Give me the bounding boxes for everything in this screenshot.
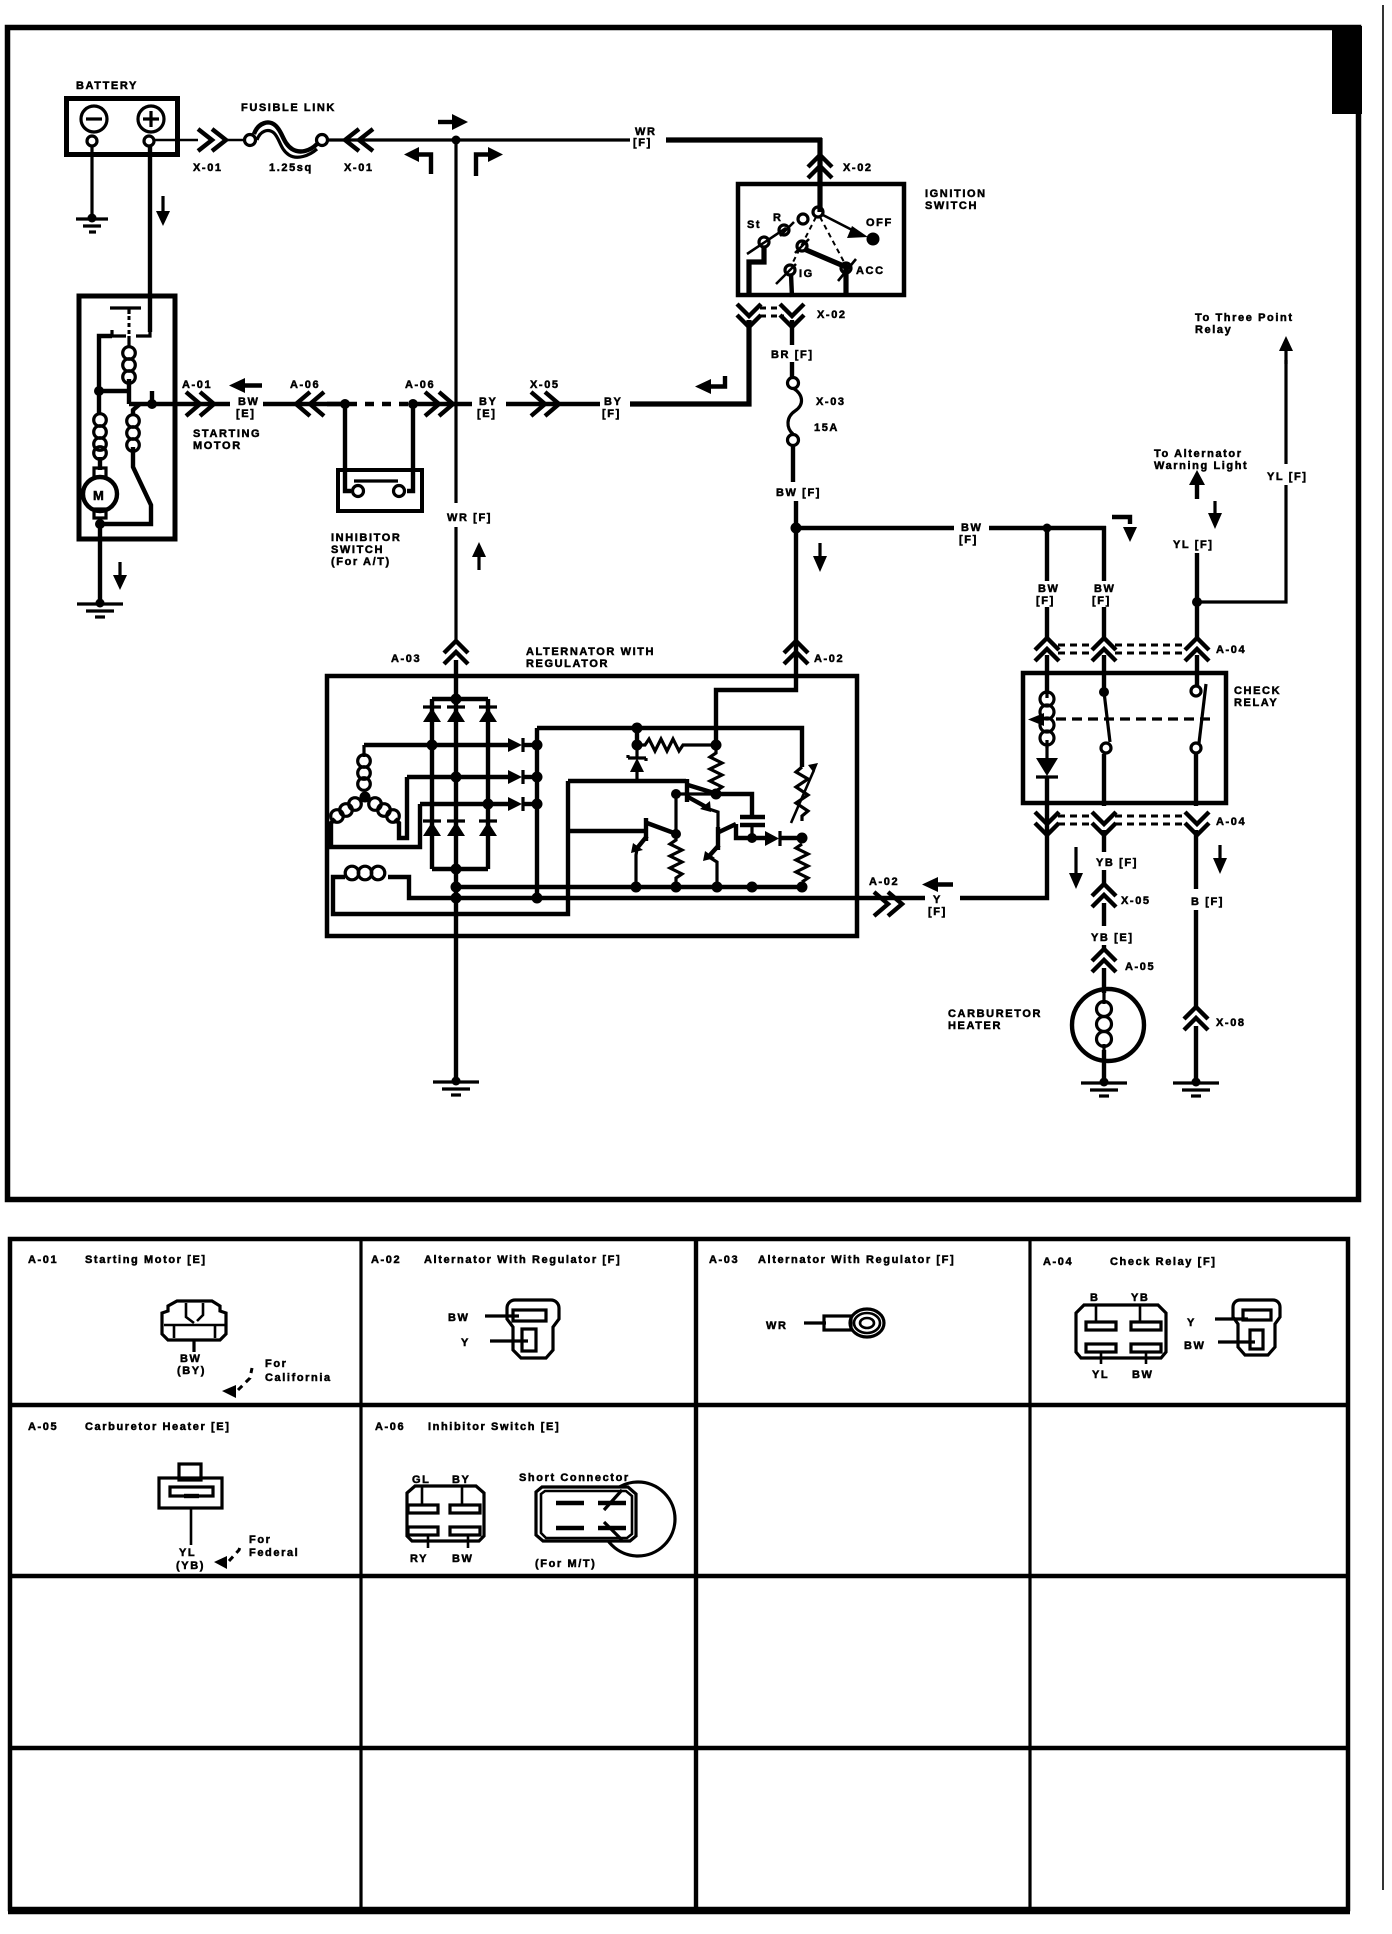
- svg-text:St: St: [747, 219, 761, 231]
- ground heater: [1100, 1078, 1109, 1087]
- connector X-05 vertical: [1092, 884, 1116, 907]
- svg-text:Alternator With Regulator [F]: Alternator With Regulator [F]: [424, 1254, 621, 1266]
- motor M: [98, 457, 102, 470]
- svg-text:CHECK: CHECK: [1234, 685, 1281, 697]
- wire IG2 to ACC: [804, 249, 846, 295]
- transistor Q1: [685, 779, 689, 802]
- dashed wiper to ACC: [820, 217, 844, 262]
- wire field coil left lead: [333, 781, 568, 914]
- dashed wiper to IG: [792, 217, 816, 264]
- wire YL right branch: [1284, 360, 1287, 464]
- border frame of schematic: [8, 28, 1359, 1200]
- svg-text:BY: BY: [604, 396, 622, 408]
- contact IG2: [797, 241, 807, 251]
- wires into relay box: [1045, 655, 1049, 694]
- wire A-02 output to Y [F]: [857, 896, 925, 900]
- stator coil right: [369, 798, 382, 811]
- arrow left on BW wire: [229, 378, 245, 393]
- svg-text:INHIBITOR: INHIBITOR: [331, 532, 401, 544]
- contact pivot: [813, 207, 823, 217]
- svg-text:MOTOR: MOTOR: [193, 440, 242, 452]
- svg-text:[F]: [F]: [602, 408, 621, 420]
- connector table grid: [10, 1239, 1348, 1909]
- ground battery: [88, 214, 97, 223]
- svg-text:A-01: A-01: [182, 379, 212, 391]
- wire BR [F]: [790, 320, 794, 345]
- arrow down beside B: [1218, 845, 1221, 859]
- wire stator left lead: [331, 804, 420, 847]
- svg-text:YB [E]: YB [E]: [1091, 932, 1134, 944]
- svg-text:[E]: [E]: [236, 408, 255, 420]
- svg-text:(BY): (BY): [177, 1365, 206, 1377]
- stator center node: [360, 792, 371, 803]
- diode D7 trio row1: [508, 738, 522, 752]
- corner arrow down marker: [1112, 517, 1130, 524]
- svg-text:CARBURETOR: CARBURETOR: [948, 1008, 1042, 1020]
- arrow left at coil: [1028, 713, 1044, 726]
- svg-text:BW [F]: BW [F]: [776, 487, 821, 499]
- svg-text:Y: Y: [933, 894, 942, 906]
- svg-text:Relay: Relay: [1195, 324, 1232, 336]
- resistor R5: [796, 844, 808, 882]
- svg-text:15A: 15A: [814, 422, 839, 434]
- svg-text:A-06: A-06: [375, 1421, 405, 1433]
- svg-text:A-02: A-02: [814, 653, 844, 665]
- wire IG down: [791, 274, 792, 297]
- svg-text:A-04: A-04: [1043, 1256, 1073, 1268]
- relay coil: [1040, 692, 1054, 706]
- wire BW branch2 down: [1102, 526, 1106, 581]
- connector icon A-02: [507, 1300, 559, 1358]
- svg-text:ACC: ACC: [856, 265, 885, 277]
- svg-text:Y: Y: [461, 1337, 470, 1349]
- ground B wire: [1192, 1078, 1201, 1087]
- svg-text:BW: BW: [448, 1312, 470, 1324]
- node motor bottom: [95, 519, 105, 529]
- svg-text:BW: BW: [238, 396, 260, 408]
- fuse X-03 15A: [788, 378, 799, 389]
- svg-text:BW: BW: [1132, 1369, 1154, 1381]
- svg-text:RELAY: RELAY: [1234, 697, 1278, 709]
- svg-text:X-02: X-02: [817, 309, 847, 321]
- svg-text:B [F]: B [F]: [1191, 896, 1224, 908]
- diode D1 top col1: [423, 705, 441, 708]
- diode D3 top col3: [479, 705, 497, 708]
- rail collector Q3: [736, 824, 765, 838]
- svg-text:BW: BW: [1094, 583, 1116, 595]
- svg-text:California: California: [265, 1372, 332, 1384]
- svg-text:A-03: A-03: [391, 653, 421, 665]
- node main vertical rail D: [451, 882, 462, 893]
- black index tab top-right: [1332, 26, 1362, 114]
- variable resistor RV: [796, 767, 808, 821]
- corner arrow left: [404, 147, 419, 162]
- svg-text:GL: GL: [412, 1474, 430, 1486]
- svg-text:RY: RY: [410, 1553, 428, 1565]
- resistor R2: [710, 745, 722, 799]
- svg-text:OFF: OFF: [866, 217, 893, 229]
- wire to starter ground: [98, 518, 102, 603]
- node BW junction: [791, 523, 802, 534]
- wire main B+ vertical: [454, 676, 458, 1080]
- wire WR to ignition switch: [666, 137, 822, 142]
- svg-text:(For M/T): (For M/T): [535, 1558, 596, 1570]
- resistor R1: [635, 728, 639, 745]
- node YL join: [1192, 597, 1202, 607]
- svg-text:M: M: [93, 488, 105, 503]
- stator phase row 2: [407, 775, 508, 779]
- diode D4 bottom col1: [423, 819, 441, 822]
- wire fusible link to junction: [327, 138, 630, 141]
- svg-text:FUSIBLE LINK: FUSIBLE LINK: [241, 102, 336, 114]
- svg-text:[F]: [F]: [928, 906, 947, 918]
- svg-text:BY: BY: [479, 396, 497, 408]
- svg-text:R: R: [773, 212, 783, 224]
- svg-text:X-05: X-05: [530, 379, 560, 391]
- connector icon A-05: [179, 1464, 201, 1480]
- connector X-01 left: [198, 129, 226, 151]
- wire battery negative to ground: [90, 146, 93, 218]
- rail B+ regulator top: [537, 728, 802, 767]
- stator coil left: [349, 798, 362, 811]
- node BW branch1: [1043, 524, 1052, 533]
- diode D2 top col2: [447, 705, 465, 708]
- arrow down beside BW junction: [818, 543, 821, 557]
- svg-text:A-04: A-04: [1216, 644, 1246, 656]
- svg-text:A-04: A-04: [1216, 816, 1246, 828]
- node inhibitor right: [408, 399, 418, 409]
- stator phase row 1: [364, 743, 508, 747]
- connector icon A-04: [1076, 1305, 1166, 1358]
- svg-text:A-06: A-06: [290, 379, 320, 391]
- starting motor box: [79, 296, 175, 539]
- svg-text:WR [F]: WR [F]: [447, 512, 492, 524]
- carburetor heater R6: [1072, 989, 1144, 1061]
- svg-text:BW: BW: [1038, 583, 1060, 595]
- arrow down beside YL: [1213, 501, 1216, 514]
- bottom bus: [432, 867, 488, 871]
- wire X-02 left branch down to BY wire: [630, 320, 749, 404]
- diode D9 trio row3: [508, 797, 522, 811]
- fusible link: [226, 139, 245, 142]
- svg-text:A-06: A-06: [405, 379, 435, 391]
- svg-text:STARTING: STARTING: [193, 428, 261, 440]
- connector X-02 top: [808, 155, 832, 178]
- zener ZD1: [635, 745, 638, 758]
- dashed wire between A-06: [327, 402, 345, 406]
- svg-text:[F]: [F]: [959, 534, 978, 546]
- solenoid pull-in coil L1: [127, 336, 130, 347]
- svg-text:Inhibitor Switch [E]: Inhibitor Switch [E]: [428, 1421, 560, 1433]
- svg-text:Starting Motor [E]: Starting Motor [E]: [85, 1254, 207, 1266]
- svg-text:Warning Light: Warning Light: [1154, 460, 1248, 472]
- svg-text:A-02: A-02: [869, 876, 899, 888]
- svg-text:Alternator With Regulator [F]: Alternator With Regulator [F]: [758, 1254, 955, 1266]
- svg-text:YB: YB: [1131, 1292, 1149, 1304]
- svg-text:Federal: Federal: [249, 1547, 299, 1559]
- wire field coil right lead: [388, 877, 857, 898]
- wire battery into contact: [148, 296, 152, 332]
- svg-text:ALTERNATOR WITH: ALTERNATOR WITH: [526, 646, 655, 658]
- svg-text:A-02: A-02: [371, 1254, 401, 1266]
- wire BW [E] from starter: [129, 402, 177, 406]
- wire Y to check relay: [960, 806, 1047, 898]
- svg-text:1.25sq: 1.25sq: [269, 162, 313, 174]
- arrow left above Y label: [922, 877, 938, 892]
- trio bus vertical: [535, 728, 539, 898]
- dashed actuator line: [1056, 717, 1212, 720]
- node junction WR: [452, 136, 461, 145]
- wire WR vertical to alternator: [454, 140, 457, 503]
- arrow down beside positive wire: [161, 196, 164, 212]
- svg-text:[F]: [F]: [1092, 595, 1111, 607]
- arrow up beside WR: [472, 542, 486, 557]
- hold-in coil L3: [133, 404, 140, 415]
- svg-text:A-01: A-01: [28, 1254, 58, 1266]
- connector A-04 bottom: [1035, 812, 1059, 835]
- svg-text:Check Relay [F]: Check Relay [F]: [1110, 1256, 1217, 1268]
- connector X-02 bottom: [737, 304, 761, 327]
- svg-text:REGULATOR: REGULATOR: [526, 658, 609, 670]
- svg-text:IGNITION: IGNITION: [925, 188, 987, 200]
- ignition switch S1: [738, 184, 904, 295]
- connector icon A-01: [162, 1301, 226, 1340]
- diode D5 bottom col2: [447, 819, 465, 822]
- svg-text:X-05: X-05: [1121, 895, 1151, 907]
- svg-text:Y: Y: [1187, 1317, 1196, 1329]
- node bottom bus: [451, 864, 462, 875]
- svg-text:YB [F]: YB [F]: [1096, 857, 1138, 869]
- svg-text:[F]: [F]: [633, 137, 652, 149]
- arrow down beside starter ground: [118, 562, 121, 576]
- stator phase row 3: [420, 802, 508, 806]
- inhibitor switch box: [338, 470, 422, 511]
- svg-text:For: For: [249, 1534, 272, 1546]
- relay diode D11: [1045, 747, 1048, 759]
- wire A-02 jog into box: [716, 528, 796, 745]
- arrow right above junction: [438, 120, 452, 124]
- svg-text:BW: BW: [180, 1353, 202, 1365]
- wire stator right lead: [395, 777, 407, 838]
- connector X-01 right: [345, 129, 373, 151]
- svg-text:BW: BW: [1184, 1340, 1206, 1352]
- alternator box: [327, 676, 857, 936]
- battery B1: [67, 99, 178, 155]
- svg-text:SWITCH: SWITCH: [925, 200, 978, 212]
- corner arrow right: [476, 155, 489, 177]
- svg-text:BW: BW: [961, 522, 983, 534]
- transistor Q3: [716, 827, 720, 850]
- svg-text:X-02: X-02: [843, 162, 873, 174]
- svg-text:[F]: [F]: [1036, 595, 1055, 607]
- svg-text:BATTERY: BATTERY: [76, 80, 138, 92]
- solenoid plunger bar: [110, 306, 141, 309]
- svg-text:A-05: A-05: [28, 1421, 58, 1433]
- relay contact right: [1191, 686, 1201, 696]
- top bus: [432, 697, 488, 701]
- connector A-04 top: [1035, 638, 1059, 661]
- short connector icon: [601, 1482, 675, 1556]
- node top bus: [451, 694, 462, 705]
- check relay box: [1023, 673, 1226, 803]
- arrow up three point relay: [1279, 336, 1293, 351]
- wire YB [F]: [1102, 830, 1106, 852]
- transistor Q2: [568, 829, 645, 833]
- svg-text:Carburetor Heater [E]: Carburetor Heater [E]: [85, 1421, 230, 1433]
- wire inhibitor drops: [345, 404, 351, 491]
- ground alternator: [452, 1077, 461, 1086]
- svg-text:To Alternator: To Alternator: [1154, 448, 1243, 460]
- wire Q2 collector up: [676, 794, 716, 834]
- wire BW branch1 down: [1045, 528, 1049, 581]
- wire left branch: [99, 336, 112, 391]
- solenoid contacts: [112, 330, 126, 336]
- svg-text:HEATER: HEATER: [948, 1020, 1002, 1032]
- svg-text:(YB): (YB): [176, 1560, 205, 1572]
- svg-text:BR [F]: BR [F]: [771, 349, 814, 361]
- svg-text:X-03: X-03: [816, 396, 846, 408]
- wire battery positive to fusible link: [154, 139, 198, 142]
- svg-text:SWITCH: SWITCH: [331, 544, 384, 556]
- wire battery positive down to starting motor: [148, 146, 152, 296]
- page edge line: [1382, 5, 1384, 1890]
- svg-text:[E]: [E]: [477, 408, 496, 420]
- rectifier column 3: [486, 699, 490, 869]
- svg-text:IG: IG: [799, 268, 814, 280]
- wire YL down to node: [1195, 553, 1199, 640]
- corner arrow left on BY wire: [695, 379, 711, 394]
- svg-text:BY: BY: [452, 1474, 470, 1486]
- node main vertical rail E: [451, 893, 462, 904]
- arrow down beside YB: [1074, 847, 1077, 874]
- rail emitter bottom: [456, 885, 802, 889]
- node inhibitor left: [340, 399, 350, 409]
- svg-text:X-08: X-08: [1216, 1017, 1246, 1029]
- svg-text:A-03: A-03: [709, 1254, 739, 1266]
- wire node to capacitor: [716, 794, 752, 816]
- connector X-08: [1184, 1007, 1208, 1030]
- svg-text:X-01: X-01: [193, 162, 223, 174]
- wire B [F]: [1194, 830, 1198, 889]
- wire St stepped: [749, 247, 764, 297]
- relay contact middle: [1099, 687, 1109, 697]
- diode D6 bottom col3: [479, 819, 497, 822]
- capacitor C1: [740, 815, 765, 819]
- field coil rotor: [345, 866, 359, 880]
- diode D8 trio row2: [508, 770, 522, 784]
- connector A-02 top: [784, 641, 808, 664]
- ground starter: [96, 599, 105, 608]
- wire fuse to BW [F]: [791, 446, 795, 482]
- svg-text:BW: BW: [452, 1553, 474, 1565]
- svg-text:To Three Point: To Three Point: [1195, 312, 1294, 324]
- svg-text:B: B: [1090, 1292, 1100, 1304]
- contact unnamed: [798, 214, 808, 224]
- rectifier column 1: [430, 699, 434, 869]
- rail base Q1: [568, 779, 686, 783]
- second connector icon: [1233, 1300, 1280, 1355]
- svg-text:(For A/T): (For A/T): [331, 556, 391, 568]
- arrow up warning light: [1189, 470, 1205, 485]
- connector A-05: [1092, 949, 1116, 972]
- resistor R3: [670, 834, 682, 883]
- svg-text:A-05: A-05: [1125, 961, 1155, 973]
- wire BW [F] horizontal: [796, 526, 954, 530]
- stator coil top: [362, 745, 365, 757]
- connector icon A-06: [407, 1486, 484, 1541]
- diode D10: [765, 831, 779, 846]
- svg-text:YL: YL: [1092, 1369, 1109, 1381]
- svg-text:YL [F]: YL [F]: [1267, 471, 1308, 483]
- svg-text:For: For: [265, 1358, 288, 1370]
- svg-text:YL [F]: YL [F]: [1173, 539, 1214, 551]
- svg-text:WR: WR: [766, 1320, 788, 1332]
- wire heater to ground: [1102, 1050, 1106, 1082]
- svg-text:YL: YL: [179, 1547, 196, 1559]
- wiper arm to OFF: [821, 214, 858, 233]
- ring terminal icon: [824, 1316, 851, 1330]
- svg-text:X-01: X-01: [344, 162, 374, 174]
- svg-text:Short Connector: Short Connector: [519, 1472, 630, 1484]
- motor field coil L2: [97, 391, 101, 414]
